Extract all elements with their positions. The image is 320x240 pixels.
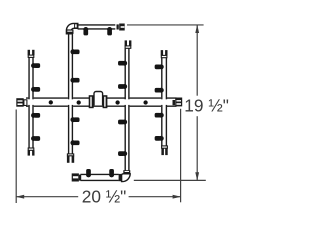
svg-text:19 ½": 19 ½" — [184, 96, 229, 116]
right vertical pipe — [161, 57, 167, 146]
dimension 20.5 line left segment — [16, 196, 78, 198]
clamp dot 2 — [77, 100, 81, 104]
bottom pipe — [80, 174, 118, 181]
nozzle left pipe y89.4 — [31, 87, 40, 92]
nozzle left pipe y65.6 — [31, 63, 40, 68]
main pipe — [24, 97, 179, 106]
clamp dot 1 — [49, 100, 53, 104]
dimension 19.5 arrow down — [195, 172, 199, 181]
svg-text:20 ½": 20 ½" — [82, 187, 127, 207]
dimension 19.5 arrow up — [195, 25, 199, 34]
nozzle right pipe y66.9 — [155, 64, 164, 69]
left vertical pipe — [28, 57, 33, 148]
nozzle center pipe y122.0 — [118, 120, 127, 125]
nozzle center pipe y153.6 — [118, 151, 127, 156]
nozzle left pipe y138.5 — [31, 136, 40, 141]
top pipe — [78, 24, 116, 29]
dimension 19.5 vertical line upper — [196, 25, 198, 96]
elbow top-left — [66, 23, 78, 34]
left pipe bottom cap — [28, 148, 35, 156]
dimension 20.5 arrow right — [173, 195, 182, 199]
right pipe top cap — [161, 50, 168, 58]
dimension 19.5 bottom extension line — [134, 179, 206, 181]
dimension 20.5 arrow left — [16, 195, 25, 199]
dimension 19.5 top extension line — [127, 24, 204, 26]
left-center vertical pipe — [68, 34, 73, 155]
clamp dot 3 — [115, 100, 119, 104]
nozzle center pipe y86.5 — [118, 84, 127, 89]
main pipe right end flange — [173, 98, 183, 107]
top pipe right end cap — [117, 24, 125, 31]
nozzle left pipe y115.4 — [31, 113, 40, 118]
nozzle bottom pipe x111.6 — [109, 169, 114, 177]
nozzle right pipe y115.2 — [155, 113, 164, 118]
main pipe left end flange — [16, 98, 27, 107]
nozzle left-center pipe y80.2 — [70, 78, 79, 83]
left pipe top cap — [28, 50, 35, 58]
nozzle top pipe x85.8 — [83, 27, 88, 35]
nozzle center pipe y63.2 — [118, 61, 127, 66]
elbow bottom-right — [119, 170, 131, 181]
center pipe top cap — [125, 40, 132, 48]
valve on main pipe — [89, 92, 108, 109]
dimension 20.5 left extension line — [15, 110, 17, 204]
center vertical pipe — [125, 48, 130, 170]
nozzle top pipe x109.6 — [107, 27, 112, 35]
left-center pipe bottom cap — [67, 154, 74, 163]
nozzle left-center pipe y142.8 — [70, 140, 79, 145]
bottom pipe left end cap — [72, 173, 82, 181]
clamp dot 4 — [143, 100, 147, 104]
right pipe bottom cap — [161, 146, 167, 155]
nozzle bottom pipe x88.5 — [86, 169, 91, 177]
dimension 19.5 vertical line lower — [196, 116, 198, 180]
dimension 20.5 line right segment — [129, 196, 181, 198]
nozzle left-center pipe y119.7 — [70, 117, 79, 122]
nozzle right pipe y90.2 — [155, 88, 164, 93]
dimension 20.5 right extension line — [180, 109, 182, 203]
nozzle right pipe y138.4 — [155, 136, 164, 141]
nozzle left-center pipe y51.8 — [70, 49, 79, 54]
